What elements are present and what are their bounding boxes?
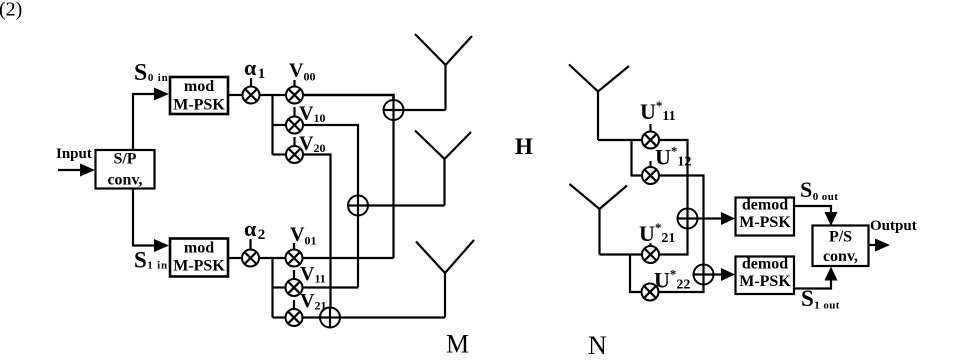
stub V01: [293, 243, 295, 250]
svg-text:(2): (2): [0, 0, 22, 21]
stub U11: [649, 124, 651, 132]
input arrow: [58, 164, 95, 177]
svg-text:H: H: [515, 134, 533, 159]
arrow adder R1 to demod1: [698, 212, 736, 225]
antenna T3: [416, 240, 474, 318]
wire adder1 to antenna T1: [404, 109, 446, 111]
svg-text:M-PSK: M-PSK: [173, 258, 225, 275]
stub V11: [293, 270, 295, 279]
wire V10 to adder2: [303, 125, 358, 196]
junction drop R2 to U22: [630, 255, 642, 293]
stub U12: [649, 161, 651, 168]
svg-text:M-PSK: M-PSK: [739, 214, 791, 231]
stub wire to V10: [273, 124, 287, 126]
mod M-PSK box 1: [170, 77, 228, 114]
stub wire to V20: [273, 153, 287, 155]
stub U21: [649, 243, 651, 247]
wire V01 to adder1 vertical: [303, 257, 394, 259]
wire U21 to adder R1: [659, 229, 688, 255]
wire V00 to adder1: [303, 95, 394, 100]
wire adder1 down to row V01: [392, 120, 394, 258]
svg-text:P/S: P/S: [829, 229, 852, 246]
wire S/P top to mod1: [133, 94, 155, 150]
multiplier X a2: [242, 250, 259, 267]
wire U22 to adder R2: [659, 285, 704, 293]
multiplier X V10: [286, 117, 303, 134]
adder R2: [694, 265, 714, 285]
wire mod2 to multiplier a2: [228, 257, 243, 259]
adder R1: [678, 209, 698, 229]
svg-text:mod: mod: [184, 240, 214, 257]
arrow into mod2: [154, 239, 169, 252]
wire S/P bottom to mod2: [133, 189, 155, 246]
svg-text:conv,: conv,: [823, 248, 858, 265]
wire adder2 to antenna T2: [368, 204, 445, 206]
S/P converter box U1: [96, 150, 155, 189]
arrow adder R2 to demod2: [714, 268, 736, 281]
junction vertical to rows 2,3: [271, 95, 273, 155]
stub V10: [293, 107, 295, 117]
wire adder3 to antenna T3: [340, 316, 445, 318]
svg-text:M: M: [446, 330, 469, 359]
wire demod1 to P/S with down arrow: [794, 206, 838, 226]
svg-text:mod: mod: [184, 78, 214, 95]
multiplier X V01: [286, 250, 303, 267]
stub alpha2: [249, 239, 251, 250]
wire a2 to V01: [259, 257, 286, 259]
junction drop R1 to U12: [632, 140, 643, 176]
multiplier X U12: [642, 167, 659, 184]
wire mod1 to multiplier a1: [228, 94, 243, 96]
multiplier X V21: [286, 309, 303, 326]
svg-text:demod: demod: [742, 256, 788, 273]
multiplier X V20: [286, 146, 303, 163]
svg-text:conv,: conv,: [107, 172, 142, 189]
svg-text:M-PSK: M-PSK: [739, 273, 791, 290]
multiplier X U22: [642, 284, 659, 301]
svg-text:M-PSK: M-PSK: [173, 97, 225, 114]
adder1: [384, 100, 404, 120]
stub wire to V21: [273, 316, 286, 318]
multiplier X a1: [243, 87, 260, 104]
stub V00: [293, 80, 295, 87]
wire U12 to adder R2: [659, 176, 704, 265]
adder3: [320, 308, 340, 328]
demod M-PSK box 1: [736, 197, 795, 236]
stub V21: [293, 300, 295, 309]
wire antenna R2 to U21: [600, 253, 643, 255]
wire demod2 to P/S with up arrow: [794, 267, 838, 289]
svg-text:Output: Output: [870, 218, 917, 234]
arrow into mod1: [154, 88, 169, 101]
P/S converter box: [813, 226, 869, 267]
multiplier X V00: [286, 87, 303, 104]
multiplier X V11: [286, 279, 303, 296]
mod M-PSK box 2: [170, 239, 228, 277]
wire adder2 down to row V11: [357, 216, 359, 288]
multiplier X U11: [642, 132, 659, 149]
wire V21 to adder3: [303, 316, 321, 318]
junction vertical bottom branch: [271, 258, 273, 318]
adder2: [348, 196, 368, 216]
antenna T1: [415, 34, 472, 110]
stub alpha1 into multiplier: [250, 78, 252, 87]
wire U11 to adder R1: [659, 140, 688, 208]
stub V20: [293, 137, 295, 146]
svg-text:demod: demod: [742, 197, 788, 214]
svg-text:Input: Input: [56, 146, 92, 162]
antenna R1: [569, 65, 629, 141]
antenna R2: [570, 184, 628, 255]
svg-text:N: N: [588, 331, 607, 360]
demod M-PSK box 2: [736, 256, 795, 295]
stub wire to V11: [273, 286, 286, 288]
wire antenna R1 to U11: [598, 139, 642, 141]
wire a1 to V00 with junction drop: [260, 94, 287, 96]
output arrow: [869, 239, 890, 252]
antenna T2: [415, 131, 471, 206]
multiplier X U21: [642, 246, 659, 263]
wire V11 to adder2 vertical: [303, 286, 359, 288]
svg-text:S/P: S/P: [113, 151, 136, 168]
wire V20 to adder3: [303, 155, 331, 308]
